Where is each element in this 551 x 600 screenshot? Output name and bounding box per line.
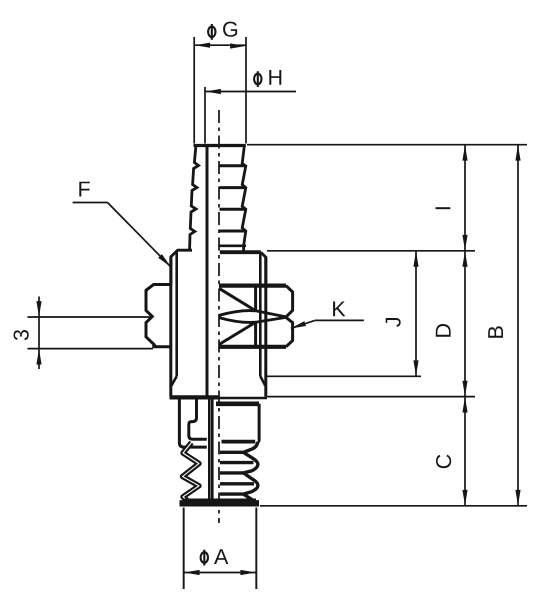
barb bottom ridge line 5	[220, 245, 247, 248]
lip top thin edge	[183, 498, 256, 501]
right extension line at body bottom	[267, 396, 475, 398]
dim phiG arrow left	[195, 43, 211, 48]
bellows fold line 3	[220, 471, 243, 474]
dim J line	[415, 251, 417, 376]
body bottom edge right (external)	[220, 397, 267, 400]
threaded body outer right edge	[264, 257, 267, 397]
dim phiA extension left	[183, 508, 185, 590]
thread end chamfer right	[260, 376, 265, 385]
dim D arrow up	[462, 251, 467, 267]
bellows fold line 2	[220, 461, 254, 464]
dim I line	[464, 145, 466, 251]
dim phiA extension right	[255, 508, 257, 590]
bellows fold line 5	[220, 492, 243, 495]
flange/thread inner line left	[175, 252, 178, 376]
dim D arrow down	[462, 381, 467, 397]
dim phiG extension left	[193, 37, 195, 144]
label phiG phi symbol	[208, 24, 215, 40]
right extension line at barb top	[247, 144, 527, 146]
bellows right external profile	[243, 442, 258, 502]
bellows left sectioned wall zigzag band	[183, 443, 200, 503]
barb ridge line 1	[220, 164, 246, 167]
bellows fold line 1	[220, 451, 243, 454]
dim 3 vertical	[38, 297, 40, 370]
centerline	[218, 110, 220, 523]
dim phiA line	[184, 572, 257, 574]
label phiH phi symbol	[254, 71, 261, 87]
hose barb right sawtooth silhouette	[242, 147, 246, 246]
dim phiH arrow	[205, 89, 221, 94]
label K	[333, 302, 345, 317]
leader F arrowhead	[158, 254, 171, 267]
dim 3 arrow up (below)	[36, 349, 41, 365]
lip mouth right extension vertical	[255, 508, 257, 590]
label A of phiA	[214, 549, 228, 564]
dim phiG arrow right	[230, 43, 246, 48]
leader K arrowhead	[291, 321, 307, 328]
thread end chamfer left	[172, 376, 177, 385]
dim 3 arrow down (above)	[36, 301, 41, 317]
flange/thread inner line right	[259, 252, 262, 376]
dim phiH line	[205, 91, 296, 93]
flange right chamfer and edge	[261, 252, 266, 284]
flange F top edge right segment	[220, 250, 261, 254]
nut2 bottom edge	[219, 345, 286, 349]
dim C line	[464, 397, 466, 506]
right extension line at thread end (J bottom)	[266, 375, 421, 377]
lens between nuts upper curve	[219, 311, 286, 317]
barb neck silhouette	[242, 246, 245, 252]
dim J arrow up	[413, 251, 418, 267]
dim B arrow up	[515, 145, 520, 161]
nut1 right chamfer+edge	[286, 286, 293, 317]
dim 3 bottom line	[28, 348, 154, 350]
stem center column left edge in bellows region	[208, 399, 211, 500]
nut2 right chamfer+edge	[286, 317, 293, 346]
label H of phiH	[269, 70, 281, 85]
barb ridge line 4	[220, 230, 246, 233]
barb ridge line 2	[220, 186, 246, 189]
leader F diagonal	[108, 203, 171, 267]
dim C arrow down	[462, 490, 467, 506]
dim I arrow down	[462, 235, 467, 251]
flange F top edge left segment	[171, 250, 192, 284]
dim 3 top line	[28, 316, 153, 318]
dim J arrow down	[413, 360, 418, 376]
label D (rotated)	[436, 324, 451, 337]
dim phiH extension	[204, 87, 206, 144]
label J (rotated)	[386, 318, 401, 327]
label F	[79, 182, 90, 197]
hex nut left profile (section)	[146, 285, 171, 347]
dim I arrow up	[462, 145, 467, 161]
label G of phiG	[223, 22, 237, 37]
dim phiA arrow left	[184, 570, 200, 575]
label C (rotated)	[436, 455, 451, 469]
lip mouth left extension vertical	[183, 508, 185, 590]
cup bead hook vertical outer	[189, 399, 207, 440]
bellows left zigzag white center	[183, 443, 200, 503]
label phiA phi symbol	[201, 550, 208, 566]
label 3 (rotated)	[14, 330, 29, 340]
bellows fold line 4	[220, 482, 254, 485]
label B (rotated)	[488, 326, 503, 337]
barb ridge line 3	[220, 208, 246, 211]
suction lip thick band	[180, 500, 260, 506]
right extension line at flange top	[267, 250, 475, 252]
dim B arrow down	[515, 490, 520, 506]
dim D line	[464, 251, 466, 397]
right extension line at lip bottom	[260, 505, 527, 507]
dim phiG extension right	[245, 37, 247, 144]
cup holder left outer wall (section)	[179, 399, 206, 448]
leader K diagonal	[291, 320, 315, 328]
dim B line	[517, 145, 519, 506]
label I (rotated)	[436, 207, 451, 209]
nut1 corner line	[254, 287, 257, 311]
cup top band (external)	[216, 401, 259, 406]
dim phiA arrow right	[240, 570, 256, 575]
hose barb top edge	[194, 144, 246, 147]
bore line (inner diameter, section)	[206, 146, 209, 398]
bellows fold line 0	[222, 440, 256, 444]
hex nut right face view: nut1 top edge	[219, 284, 286, 288]
leader F underline	[73, 202, 108, 204]
cup holder right outer wall	[258, 404, 259, 442]
stem center column right edge in bellows region	[211, 399, 214, 500]
hose barb left sectioned edge with notches	[190, 147, 199, 249]
nut2 corner line	[254, 322, 257, 345]
leader K underline	[315, 319, 364, 321]
threaded body outer left edge	[169, 257, 172, 397]
dim C arrow up	[462, 397, 467, 413]
body bottom edge	[170, 395, 220, 399]
hex nut left profile inner edges	[154, 344, 157, 347]
dim phiG line	[194, 44, 246, 46]
nut2 face chamfer diagonal	[219, 322, 255, 344]
nut1 face chamfer diagonal	[219, 288, 255, 310]
lens between nuts lower curve	[219, 317, 286, 322]
